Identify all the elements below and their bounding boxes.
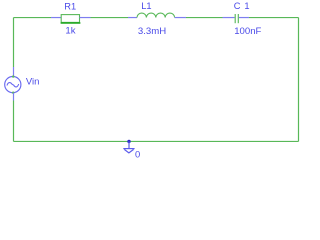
Vin pin 1 end dot: [12, 75, 14, 77]
ground stem: [128, 141, 130, 148]
node 0 junction dot: [127, 140, 130, 143]
L1 pin 1 lead: [128, 17, 137, 19]
R1 pin 2 lead: [80, 17, 91, 19]
svg-text:1: 1: [244, 1, 249, 11]
wire between L1 and C1: [186, 17, 223, 19]
wire left vertical upper: [13, 18, 15, 67]
C1 right plate: [237, 14, 239, 23]
source Vin: [5, 67, 21, 101]
ground vee: [124, 149, 133, 153]
L1 winding humps: [137, 13, 175, 18]
wire right vertical: [298, 18, 300, 142]
C1 pin 1 lead: [223, 17, 235, 19]
svg-text:100nF: 100nF: [234, 26, 261, 37]
svg-text:C: C: [234, 1, 241, 11]
Vin pin + lead: [13, 67, 15, 77]
svg-text:L1: L1: [141, 1, 151, 11]
Vin pin 2 end dot: [12, 92, 14, 94]
R1 pin 1 lead: [51, 17, 61, 19]
svg-text:Vin: Vin: [26, 76, 40, 87]
R1 body bottom edge: [61, 22, 81, 24]
svg-text:3.3mH: 3.3mH: [138, 26, 166, 37]
inductor L1: [128, 13, 186, 18]
resistor R1: [51, 15, 91, 23]
ground bar: [123, 148, 134, 150]
wire between R1 and L1: [91, 17, 129, 19]
ground 0: [123, 141, 134, 152]
Vin sine mark: [7, 83, 19, 87]
capacitor C1: [223, 14, 250, 23]
Vin body circle: [5, 77, 21, 93]
svg-text:0: 0: [135, 149, 140, 160]
svg-text:1k: 1k: [65, 26, 75, 37]
C1 left plate: [234, 14, 236, 23]
Vin pin - lead: [13, 93, 15, 101]
svg-text:R1: R1: [64, 1, 76, 11]
wire left vertical lower: [13, 101, 15, 142]
wire top-right segment: [249, 17, 299, 19]
L1 pin 2 lead: [175, 17, 186, 19]
R1 body box: [61, 15, 79, 23]
wire top-left segment: [14, 17, 52, 19]
C1 pin 2 lead: [239, 17, 249, 19]
wire bottom: [14, 140, 299, 142]
